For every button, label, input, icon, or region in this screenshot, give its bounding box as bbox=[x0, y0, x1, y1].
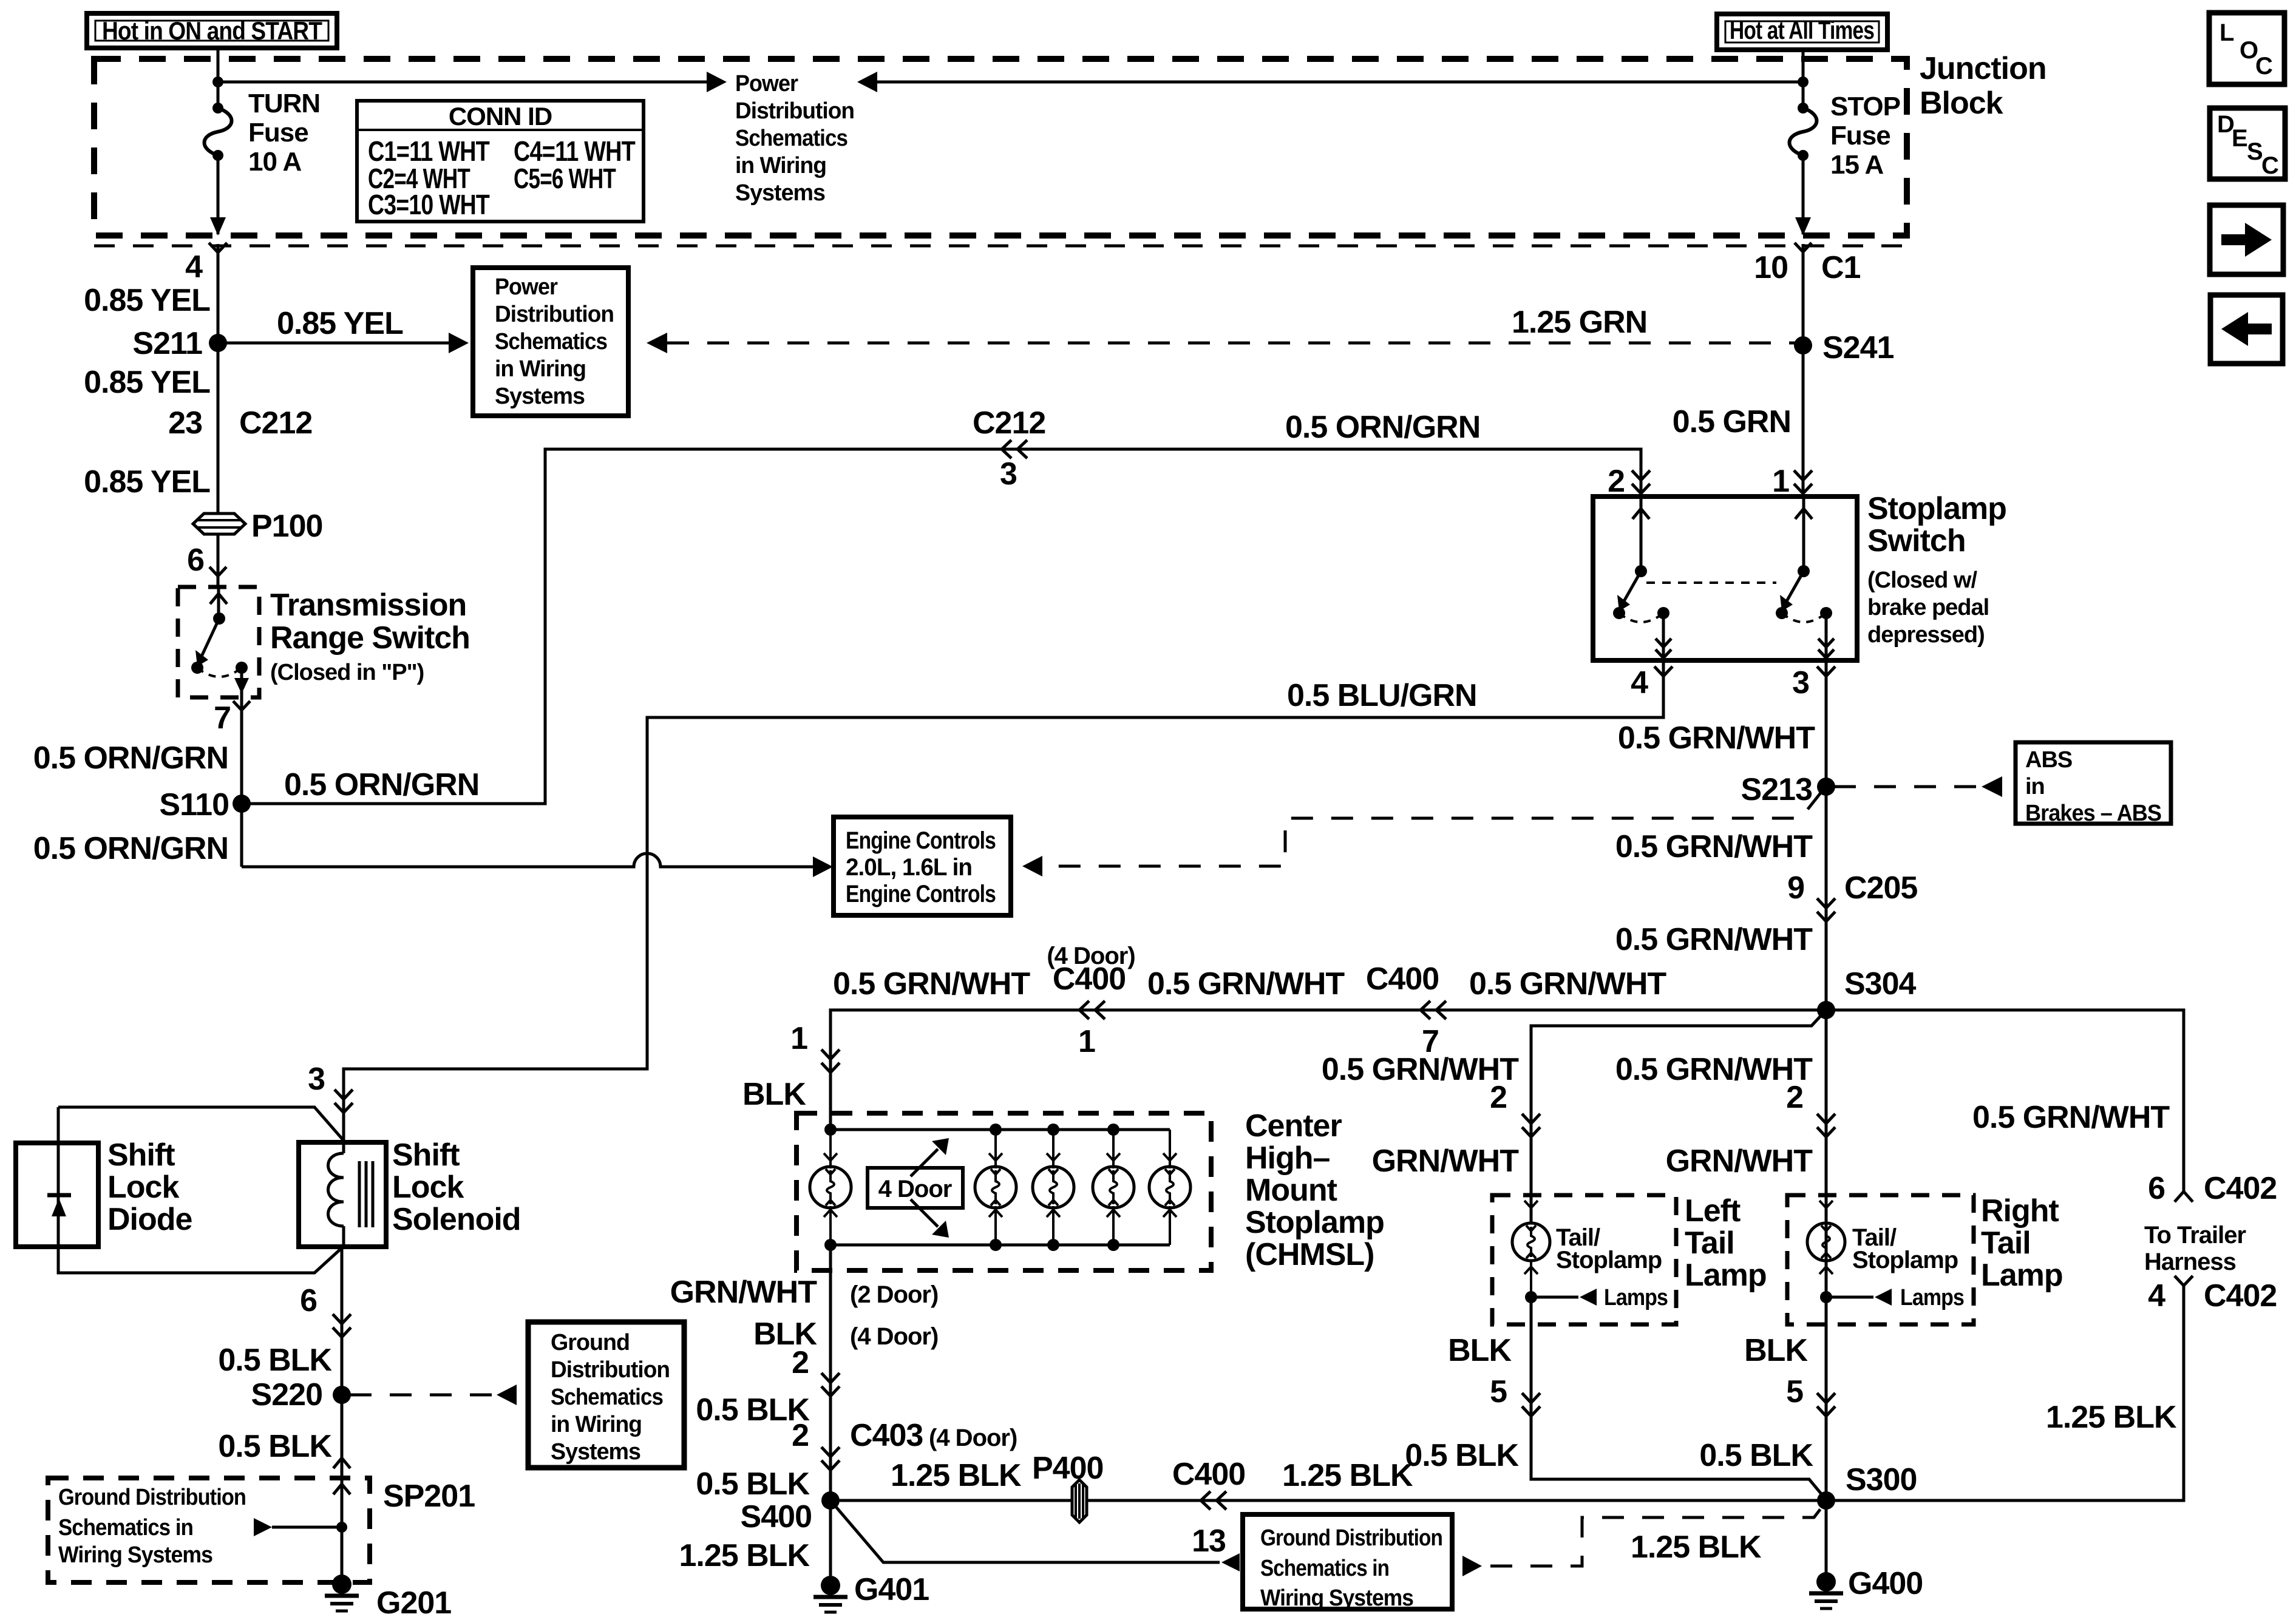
svg-text:23: 23 bbox=[168, 405, 202, 441]
svg-text:Engine Controls: Engine Controls bbox=[846, 881, 996, 907]
svg-text:TURN: TURN bbox=[248, 89, 320, 118]
svg-text:BLK: BLK bbox=[742, 1077, 806, 1112]
svg-text:G400: G400 bbox=[1848, 1566, 1923, 1601]
svg-text:(Closed w/: (Closed w/ bbox=[1867, 568, 1977, 593]
svg-text:Ground Distribution: Ground Distribution bbox=[1260, 1525, 1442, 1551]
svg-text:C402: C402 bbox=[2204, 1278, 2277, 1314]
svg-text:Tail: Tail bbox=[1685, 1225, 1734, 1261]
svg-text:C403: C403 bbox=[850, 1418, 923, 1453]
svg-text:To Trailer: To Trailer bbox=[2144, 1222, 2246, 1249]
svg-text:GRN/WHT: GRN/WHT bbox=[1372, 1144, 1520, 1179]
svg-text:Distribution: Distribution bbox=[551, 1357, 670, 1383]
svg-text:15 A: 15 A bbox=[1830, 150, 1884, 180]
svg-text:G401: G401 bbox=[854, 1572, 929, 1607]
svg-text:1.25 GRN: 1.25 GRN bbox=[1512, 305, 1647, 340]
svg-text:C205: C205 bbox=[1844, 870, 1917, 906]
svg-text:Lock: Lock bbox=[107, 1170, 179, 1205]
svg-text:C: C bbox=[2261, 152, 2278, 179]
svg-text:5: 5 bbox=[1490, 1374, 1507, 1409]
svg-text:3: 3 bbox=[1000, 456, 1017, 492]
svg-text:0.5 GRN/WHT: 0.5 GRN/WHT bbox=[1469, 966, 1666, 1002]
svg-text:Stoplamp: Stoplamp bbox=[1245, 1205, 1384, 1240]
svg-text:2: 2 bbox=[792, 1345, 809, 1380]
svg-text:0.5 GRN/WHT: 0.5 GRN/WHT bbox=[1615, 922, 1813, 957]
svg-text:Lamps: Lamps bbox=[1900, 1285, 1964, 1310]
svg-text:Fuse: Fuse bbox=[1830, 121, 1890, 151]
svg-text:GRN/WHT: GRN/WHT bbox=[670, 1275, 818, 1310]
svg-text:S211: S211 bbox=[132, 326, 202, 361]
svg-text:Transmission: Transmission bbox=[270, 588, 466, 623]
svg-text:2: 2 bbox=[792, 1418, 809, 1453]
svg-text:2.0L, 1.6L in: 2.0L, 1.6L in bbox=[846, 854, 972, 881]
svg-text:Lock: Lock bbox=[392, 1170, 464, 1205]
svg-text:S300: S300 bbox=[1846, 1462, 1917, 1497]
svg-text:Lamp: Lamp bbox=[1981, 1258, 2063, 1293]
svg-text:1.25 BLK: 1.25 BLK bbox=[1282, 1458, 1413, 1493]
svg-text:Schematics: Schematics bbox=[551, 1385, 663, 1410]
svg-text:(CHMSL): (CHMSL) bbox=[1245, 1237, 1374, 1272]
svg-text:5: 5 bbox=[1786, 1374, 1803, 1409]
svg-text:Shift: Shift bbox=[107, 1137, 175, 1173]
svg-text:2: 2 bbox=[1490, 1080, 1507, 1115]
svg-text:4: 4 bbox=[185, 249, 203, 285]
svg-text:0.5 GRN/WHT: 0.5 GRN/WHT bbox=[833, 966, 1030, 1002]
svg-text:Tail: Tail bbox=[1981, 1225, 2031, 1261]
svg-text:L: L bbox=[2220, 19, 2234, 46]
svg-text:C: C bbox=[2255, 53, 2272, 80]
svg-text:9: 9 bbox=[1787, 870, 1804, 906]
svg-text:C3=10 WHT: C3=10 WHT bbox=[368, 189, 490, 220]
svg-text:Wiring Systems: Wiring Systems bbox=[1260, 1585, 1413, 1611]
svg-text:ABS: ABS bbox=[2025, 747, 2072, 773]
svg-text:0.5 BLK: 0.5 BLK bbox=[218, 1343, 332, 1378]
svg-text:brake pedal: brake pedal bbox=[1867, 595, 1989, 620]
svg-text:(4 Door): (4 Door) bbox=[929, 1425, 1017, 1451]
svg-text:P400: P400 bbox=[1032, 1451, 1103, 1486]
svg-text:2: 2 bbox=[1608, 464, 1625, 499]
svg-text:Shift: Shift bbox=[392, 1137, 460, 1173]
svg-text:S: S bbox=[2247, 138, 2263, 165]
svg-text:Wiring Systems: Wiring Systems bbox=[58, 1542, 212, 1568]
svg-text:3: 3 bbox=[1792, 665, 1809, 700]
svg-text:0.85 YEL: 0.85 YEL bbox=[84, 283, 210, 318]
svg-text:STOP: STOP bbox=[1830, 92, 1900, 121]
svg-text:P100: P100 bbox=[251, 509, 322, 544]
svg-text:(2 Door): (2 Door) bbox=[850, 1281, 938, 1308]
svg-text:Stoplamp: Stoplamp bbox=[1852, 1247, 1958, 1273]
svg-text:BLK: BLK bbox=[1744, 1333, 1808, 1368]
svg-text:C400: C400 bbox=[1172, 1457, 1245, 1492]
svg-text:Schematics in: Schematics in bbox=[58, 1515, 193, 1541]
svg-text:1: 1 bbox=[1772, 464, 1789, 499]
svg-text:Power: Power bbox=[735, 71, 798, 97]
svg-text:Hot in ON and START: Hot in ON and START bbox=[102, 16, 322, 45]
svg-text:10: 10 bbox=[1754, 250, 1788, 285]
svg-text:1: 1 bbox=[1078, 1024, 1095, 1059]
svg-text:1.25 BLK: 1.25 BLK bbox=[679, 1538, 810, 1573]
svg-text:0.5 BLK: 0.5 BLK bbox=[696, 1466, 810, 1502]
svg-text:C5=6 WHT: C5=6 WHT bbox=[514, 163, 616, 194]
svg-text:C402: C402 bbox=[2204, 1171, 2277, 1206]
svg-text:0.85 YEL: 0.85 YEL bbox=[277, 306, 403, 341]
svg-text:S110: S110 bbox=[159, 787, 229, 822]
svg-text:0.5 GRN: 0.5 GRN bbox=[1673, 404, 1791, 439]
svg-text:3: 3 bbox=[308, 1062, 325, 1097]
svg-text:0.5 GRN/WHT: 0.5 GRN/WHT bbox=[1615, 1052, 1813, 1087]
svg-text:Schematics: Schematics bbox=[495, 329, 607, 354]
svg-text:Center: Center bbox=[1245, 1108, 1342, 1144]
svg-text:S304: S304 bbox=[1844, 966, 1917, 1002]
svg-text:1.25 BLK: 1.25 BLK bbox=[1631, 1530, 1762, 1565]
svg-text:4 Door: 4 Door bbox=[878, 1176, 952, 1202]
svg-text:4: 4 bbox=[2148, 1278, 2165, 1314]
svg-text:in Wiring: in Wiring bbox=[735, 153, 826, 178]
svg-text:13: 13 bbox=[1192, 1524, 1226, 1559]
svg-text:S241: S241 bbox=[1822, 330, 1894, 365]
svg-text:Ground Distribution: Ground Distribution bbox=[58, 1485, 246, 1510]
svg-text:E: E bbox=[2232, 125, 2247, 152]
svg-text:0.85 YEL: 0.85 YEL bbox=[84, 365, 210, 400]
svg-text:0.5 BLK: 0.5 BLK bbox=[1699, 1438, 1813, 1473]
svg-text:0.5 ORN/GRN: 0.5 ORN/GRN bbox=[1285, 410, 1480, 445]
svg-text:0.5 ORN/GRN: 0.5 ORN/GRN bbox=[284, 767, 479, 802]
svg-text:(4 Door): (4 Door) bbox=[850, 1323, 938, 1350]
svg-text:C1: C1 bbox=[1821, 250, 1861, 285]
svg-text:BLK: BLK bbox=[1448, 1333, 1512, 1368]
svg-text:0.5 GRN/WHT: 0.5 GRN/WHT bbox=[1147, 966, 1345, 1002]
svg-text:Power: Power bbox=[495, 274, 558, 300]
svg-text:in Wiring: in Wiring bbox=[551, 1412, 642, 1437]
svg-text:Lamp: Lamp bbox=[1685, 1258, 1767, 1293]
svg-text:Diode: Diode bbox=[107, 1202, 192, 1237]
svg-text:Right: Right bbox=[1981, 1193, 2059, 1229]
svg-text:CONN ID: CONN ID bbox=[449, 102, 552, 131]
svg-text:C400: C400 bbox=[1366, 961, 1439, 997]
svg-text:0.5 BLU/GRN: 0.5 BLU/GRN bbox=[1287, 678, 1477, 713]
svg-text:SP201: SP201 bbox=[383, 1479, 475, 1514]
svg-text:0.5 GRN/WHT: 0.5 GRN/WHT bbox=[1972, 1100, 2170, 1135]
svg-text:Brakes – ABS: Brakes – ABS bbox=[2025, 801, 2161, 826]
svg-text:S400: S400 bbox=[741, 1499, 812, 1534]
svg-text:Ground: Ground bbox=[551, 1330, 630, 1355]
svg-text:depressed): depressed) bbox=[1867, 622, 1985, 648]
svg-text:Systems: Systems bbox=[495, 384, 585, 409]
svg-text:(Closed in "P"): (Closed in "P") bbox=[270, 660, 424, 685]
svg-text:in: in bbox=[2025, 774, 2045, 799]
svg-text:6: 6 bbox=[187, 543, 204, 578]
svg-text:in Wiring: in Wiring bbox=[495, 356, 586, 382]
svg-text:Junction: Junction bbox=[1920, 51, 2046, 86]
svg-text:2: 2 bbox=[1786, 1080, 1803, 1115]
svg-text:Engine Controls: Engine Controls bbox=[846, 827, 996, 854]
svg-text:Lamps: Lamps bbox=[1604, 1285, 1668, 1310]
svg-text:GRN/WHT: GRN/WHT bbox=[1666, 1144, 1813, 1179]
svg-text:1.25 BLK: 1.25 BLK bbox=[891, 1458, 1022, 1493]
svg-text:High–: High– bbox=[1245, 1141, 1330, 1176]
svg-text:S213: S213 bbox=[1741, 772, 1813, 807]
svg-text:0.5 ORN/GRN: 0.5 ORN/GRN bbox=[33, 741, 228, 776]
svg-text:Left: Left bbox=[1685, 1193, 1741, 1229]
svg-text:C212: C212 bbox=[973, 405, 1045, 441]
svg-text:Hot at All Times: Hot at All Times bbox=[1730, 16, 1874, 44]
svg-text:Distribution: Distribution bbox=[735, 98, 854, 124]
svg-text:C400: C400 bbox=[1053, 961, 1126, 997]
svg-text:0.5 GRN/WHT: 0.5 GRN/WHT bbox=[1618, 720, 1815, 756]
svg-text:Schematics in: Schematics in bbox=[1260, 1556, 1389, 1581]
svg-text:Solenoid: Solenoid bbox=[392, 1202, 521, 1237]
svg-text:10 A: 10 A bbox=[248, 147, 302, 177]
svg-text:Mount: Mount bbox=[1245, 1173, 1337, 1208]
svg-text:G201: G201 bbox=[376, 1585, 451, 1617]
svg-text:1: 1 bbox=[790, 1021, 807, 1056]
svg-text:Stoplamp: Stoplamp bbox=[1556, 1247, 1662, 1273]
svg-text:Stoplamp: Stoplamp bbox=[1867, 491, 2006, 526]
svg-text:1.25 BLK: 1.25 BLK bbox=[2046, 1400, 2177, 1435]
svg-text:Distribution: Distribution bbox=[495, 302, 614, 327]
svg-text:Schematics: Schematics bbox=[735, 126, 847, 151]
svg-text:0.5 GRN/WHT: 0.5 GRN/WHT bbox=[1615, 829, 1813, 864]
svg-text:6: 6 bbox=[300, 1283, 317, 1318]
svg-text:Block: Block bbox=[1920, 86, 2003, 121]
svg-text:4: 4 bbox=[1631, 665, 1648, 700]
svg-text:Fuse: Fuse bbox=[248, 118, 308, 147]
svg-text:Systems: Systems bbox=[735, 180, 825, 206]
svg-text:6: 6 bbox=[2148, 1171, 2165, 1206]
svg-text:0.5 BLK: 0.5 BLK bbox=[1405, 1438, 1519, 1473]
svg-text:0.5 BLK: 0.5 BLK bbox=[218, 1429, 332, 1464]
svg-text:Harness: Harness bbox=[2144, 1249, 2236, 1275]
svg-text:0.85 YEL: 0.85 YEL bbox=[84, 464, 210, 500]
svg-text:C212: C212 bbox=[239, 405, 312, 441]
svg-text:Switch: Switch bbox=[1867, 523, 1966, 558]
svg-text:Range Switch: Range Switch bbox=[270, 620, 470, 656]
svg-text:7: 7 bbox=[214, 700, 231, 736]
svg-text:0.5 ORN/GRN: 0.5 ORN/GRN bbox=[33, 831, 228, 866]
svg-text:S220: S220 bbox=[251, 1377, 322, 1412]
svg-text:Systems: Systems bbox=[551, 1439, 640, 1465]
